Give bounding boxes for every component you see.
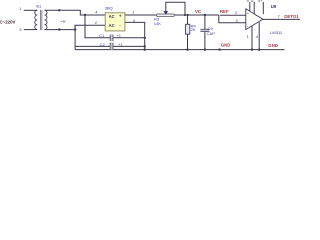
wire C2 left branch [75, 45, 110, 47]
wire R4 top lead [187, 15, 189, 24]
wire C1 right to minus bus [113, 37, 145, 39]
wire opamp output [263, 18, 300, 20]
wire jog up to bridge AC2 [75, 25, 105, 29]
wire C9 top lead [204, 15, 206, 29]
svg-text:AC: AC [109, 23, 115, 28]
ground rail [75, 49, 284, 51]
capacitor C2 plates [110, 43, 113, 50]
wire bridge plus output to pot [125, 14, 157, 16]
potentiometer wiper arrow [163, 11, 168, 15]
wire VC step down to opamp inverting input [219, 15, 246, 23]
svg-text:14K: 14K [154, 21, 161, 26]
svg-text:~V: ~V [60, 19, 66, 24]
resistor R4 body [186, 24, 190, 34]
wire opamp vminus pin down [258, 22, 260, 49]
transformer B1 primary coil [35, 10, 37, 29]
wire C1 left branch [85, 15, 110, 38]
svg-text:2K: 2K [191, 27, 196, 32]
wire bridge minus output down bus [125, 22, 145, 49]
potentiometer R3 body [157, 14, 175, 17]
svg-text:U9: U9 [271, 4, 277, 9]
svg-text:B1: B1 [36, 4, 42, 9]
capacitor C1 plates [110, 35, 113, 42]
svg-text:C2: C2 [100, 42, 106, 47]
svg-text:REF: REF [220, 9, 229, 14]
op-amp U9 triangle [246, 9, 263, 30]
junction dots [58, 9, 260, 51]
svg-text:C1: C1 [99, 33, 105, 38]
svg-text:V+: V+ [258, 0, 264, 3]
wire R4 bottom to rail [187, 34, 189, 50]
svg-text:+1: +1 [118, 42, 123, 47]
svg-text:CAP: CAP [207, 31, 216, 36]
svg-text:GND: GND [221, 43, 231, 48]
transformer B1 core [39, 10, 41, 30]
wire primary bottom lead [24, 29, 37, 31]
wire REF to opamp noninverting input [220, 14, 246, 16]
svg-text:DETO1: DETO1 [284, 14, 299, 19]
wire pot wiper loop [166, 2, 185, 15]
svg-text:+: + [119, 14, 122, 19]
svg-text:+1: +1 [116, 33, 121, 38]
svg-text:VC: VC [195, 9, 202, 14]
wire primary top lead [24, 9, 37, 11]
wire C9 bottom lead [204, 32, 206, 50]
wire opamp gnd pin down [251, 26, 253, 50]
wire C2 right to minus bus [113, 45, 145, 47]
wire opamp top pin 5 [249, 2, 251, 11]
svg-text:C~220V: C~220V [0, 19, 16, 24]
wire node down to ground rail [74, 25, 76, 49]
svg-text:GND: GND [268, 43, 278, 48]
wire secondary bottom [45, 29, 76, 31]
transformer B1 secondary coil [45, 10, 47, 29]
wire opamp top pin 6 [253, 2, 255, 14]
svg-text:3BQ: 3BQ [105, 5, 113, 10]
bridge rectifier 3BQ body [105, 13, 125, 31]
wire opamp V+ pin [262, 2, 264, 14]
wire pot to VC corner [174, 14, 218, 16]
svg-text:AC: AC [109, 14, 115, 19]
svg-text:LM311: LM311 [270, 30, 283, 35]
capacitor C9 plates [200, 29, 209, 31]
wire secondary top to bridge AC1 [45, 10, 106, 15]
